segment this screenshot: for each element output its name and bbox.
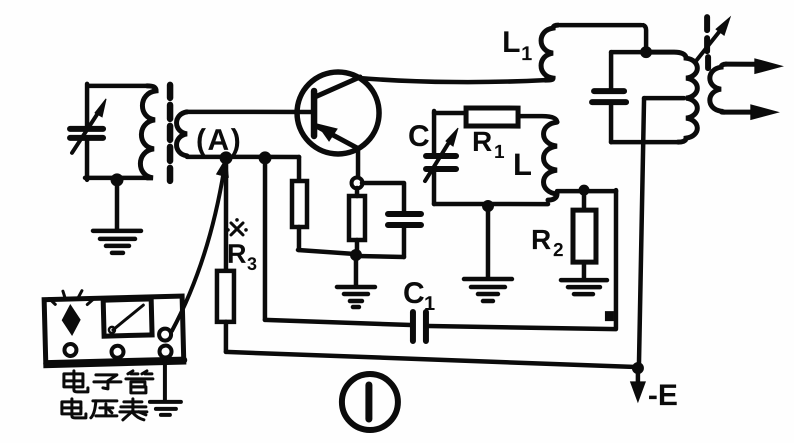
node: left tank junction dot (111, 173, 124, 186)
transistor Q1 collector stroke (315, 77, 360, 97)
arrow: variable coupling (695, 17, 730, 62)
wire: C1 left wire (265, 320, 411, 325)
wire: emitter lead down (356, 148, 361, 177)
svg-text:R: R (472, 126, 492, 157)
ground: meter (150, 402, 181, 415)
wire: collector to L1 (359, 78, 545, 82)
label -E (648, 379, 678, 412)
resistor R3 box (217, 271, 234, 322)
reference mark (asterisk) (226, 218, 248, 235)
meter knob tick rays (49, 290, 93, 305)
wire: tank top to capacitor branch (611, 50, 644, 55)
wire+arrow: output terminal top (726, 59, 781, 73)
capacitor: emitter bypass cap plates (388, 214, 421, 225)
wire: emitter resistor top lead (355, 188, 360, 196)
wire: coil tap to -E rail (644, 96, 684, 101)
wire: R3 top lead from node A (224, 160, 229, 271)
wire: L1 top wire to output tank (560, 23, 641, 28)
svg-text:1: 1 (494, 142, 505, 163)
wire: vertical rail down to -E node (639, 98, 644, 366)
node: output tank top junction dot (640, 46, 652, 58)
node junction dot 2 (259, 151, 272, 164)
wire: emitter network ground lead (354, 257, 359, 285)
svg-text:C: C (408, 120, 430, 153)
transistor Q1 base bar (311, 91, 318, 136)
label: Chinese character guan (tube) line1 (126, 371, 153, 393)
wire: R2 bottom lead (582, 262, 587, 278)
junction nub on right rail (605, 311, 614, 321)
variable capacitor CV1 arrow (72, 99, 106, 153)
inductor L coil (544, 122, 558, 200)
meter: voltmeter box (44, 288, 184, 366)
label: Chinese character biao (meter) line2 (120, 399, 147, 420)
wire: coil L bottom to R2 junction (557, 189, 616, 194)
svg-text:1: 1 (424, 293, 435, 315)
svg-text:2: 2 (553, 240, 564, 261)
wire: left tank left side lower (85, 140, 90, 180)
wire: capacitor top lead (609, 52, 614, 88)
svg-text:1: 1 (521, 43, 532, 65)
meter display window (103, 299, 152, 336)
ground: emitter network (337, 287, 375, 307)
meter terminal 2 (111, 346, 123, 358)
ground: R2 (561, 280, 607, 294)
label (A) (196, 124, 242, 157)
node: middle tank junction dot (482, 200, 494, 212)
wire: middle tank left side lower (432, 171, 437, 204)
arrow: -E terminal (631, 370, 645, 401)
label R1 (472, 126, 505, 163)
wire: emitter resistor bottom lead (355, 240, 360, 255)
figure number circled 1 (342, 374, 398, 430)
wire: node dot2 down to C1 wire (263, 158, 268, 320)
wire: emitter node to bypass cap (362, 181, 404, 186)
resistor R1 box (466, 108, 518, 126)
node: emitter node circle (352, 177, 363, 188)
wire: middle tank left side upper (432, 111, 437, 153)
svg-text:-E: -E (648, 379, 678, 412)
variable capacitor CV1 plates (70, 129, 103, 138)
wire: base wire from secondary to transistor (186, 110, 311, 115)
label: Chinese character dian (electric) line1 (64, 371, 88, 392)
inductor L1 coil (541, 25, 558, 80)
label: Chinese character dian (electric) line2 (62, 399, 86, 418)
node: -E junction dot (632, 362, 644, 374)
variable capacitor C arrow (425, 128, 458, 181)
node: emitter network junction dot (350, 249, 362, 261)
meter terminal 1 (64, 344, 76, 356)
wire: R3 bottom lead (224, 322, 229, 352)
meter needle (112, 305, 144, 330)
node: R2 top junction dot (579, 185, 590, 196)
meter terminal 3 (159, 328, 171, 340)
wire: bottom rail right part (357, 256, 404, 257)
wire: bias resistor bottom lead (297, 227, 302, 250)
wire: capacitor bottom lead (609, 105, 614, 142)
wire+arrow: output terminal bottom (724, 105, 777, 119)
capacitor C1 plates (413, 312, 426, 341)
wire: left tank bottom side (85, 176, 148, 181)
svg-text:L: L (502, 26, 520, 59)
inductor: coupling secondary coil (177, 112, 188, 156)
label L (513, 147, 532, 182)
wire: corner down to tank top node (643, 25, 646, 50)
ground: middle tank (464, 279, 512, 301)
resistor: emitter resistor box (349, 196, 365, 240)
transistor Q1 circle (297, 72, 379, 154)
inductor: output tank coil (651, 52, 697, 142)
capacitor: output tank cap plates (592, 91, 626, 102)
wire: R1 to coil L top (518, 116, 557, 122)
label C1 (403, 277, 435, 315)
inductor: output secondary coil (710, 64, 726, 112)
wire: left tank top side (88, 84, 147, 89)
label: Chinese character zi (child) line1 (94, 375, 121, 389)
inductor: left tank coil (140, 86, 156, 178)
wire: left tank ground lead (115, 182, 120, 229)
wire: bottom rail to -E node (226, 352, 638, 367)
node A junction dot 1 (220, 151, 233, 164)
wire: left tank left side upper (85, 84, 90, 127)
wire: middle tank top-left lead (434, 111, 466, 116)
wire: bypass cap top lead (402, 184, 407, 211)
ground: left tank (93, 231, 141, 253)
wire: middle tank ground lead (486, 208, 491, 277)
label C (middle tank) (408, 120, 430, 153)
wire: meter probe to node A with arrow (172, 159, 228, 331)
meter terminal 4 (159, 345, 171, 357)
wire: meter ground lead (163, 360, 167, 400)
resistor: base bias resistor box (292, 181, 307, 227)
wire: middle tank bottom side (434, 202, 548, 207)
svg-text:R: R (531, 224, 551, 255)
svg-text:C: C (403, 277, 425, 310)
transformer core (dashed coupling line) (167, 85, 174, 181)
wire: corner down from node A to bias resistor (297, 157, 302, 181)
svg-text:L: L (513, 147, 532, 182)
label: Chinese character ya (pressure) line2 (91, 401, 117, 418)
svg-text:R: R (227, 239, 247, 269)
label R3 (227, 239, 257, 274)
svg-text:3: 3 (247, 254, 257, 274)
wire: C1 right wire (429, 326, 616, 329)
wire: R2 top lead (582, 190, 587, 210)
wire: tank bottom wire to coil (611, 140, 679, 145)
label R2 (531, 224, 564, 261)
transistor Q1 emitter stroke with arrow (316, 124, 357, 148)
label L1 (502, 26, 532, 65)
meter knob (61, 304, 81, 336)
wire: node A bottom wire (187, 155, 299, 160)
variable capacitor C plates (426, 156, 456, 169)
wire: bottom rail left part (298, 250, 355, 254)
coupling dashes: output transformer (707, 17, 708, 68)
wire: right side down from R2 junction (614, 190, 619, 328)
svg-text:(A): (A) (196, 124, 242, 157)
resistor R2 box (573, 210, 596, 262)
wire: bypass cap bottom lead (402, 227, 407, 257)
